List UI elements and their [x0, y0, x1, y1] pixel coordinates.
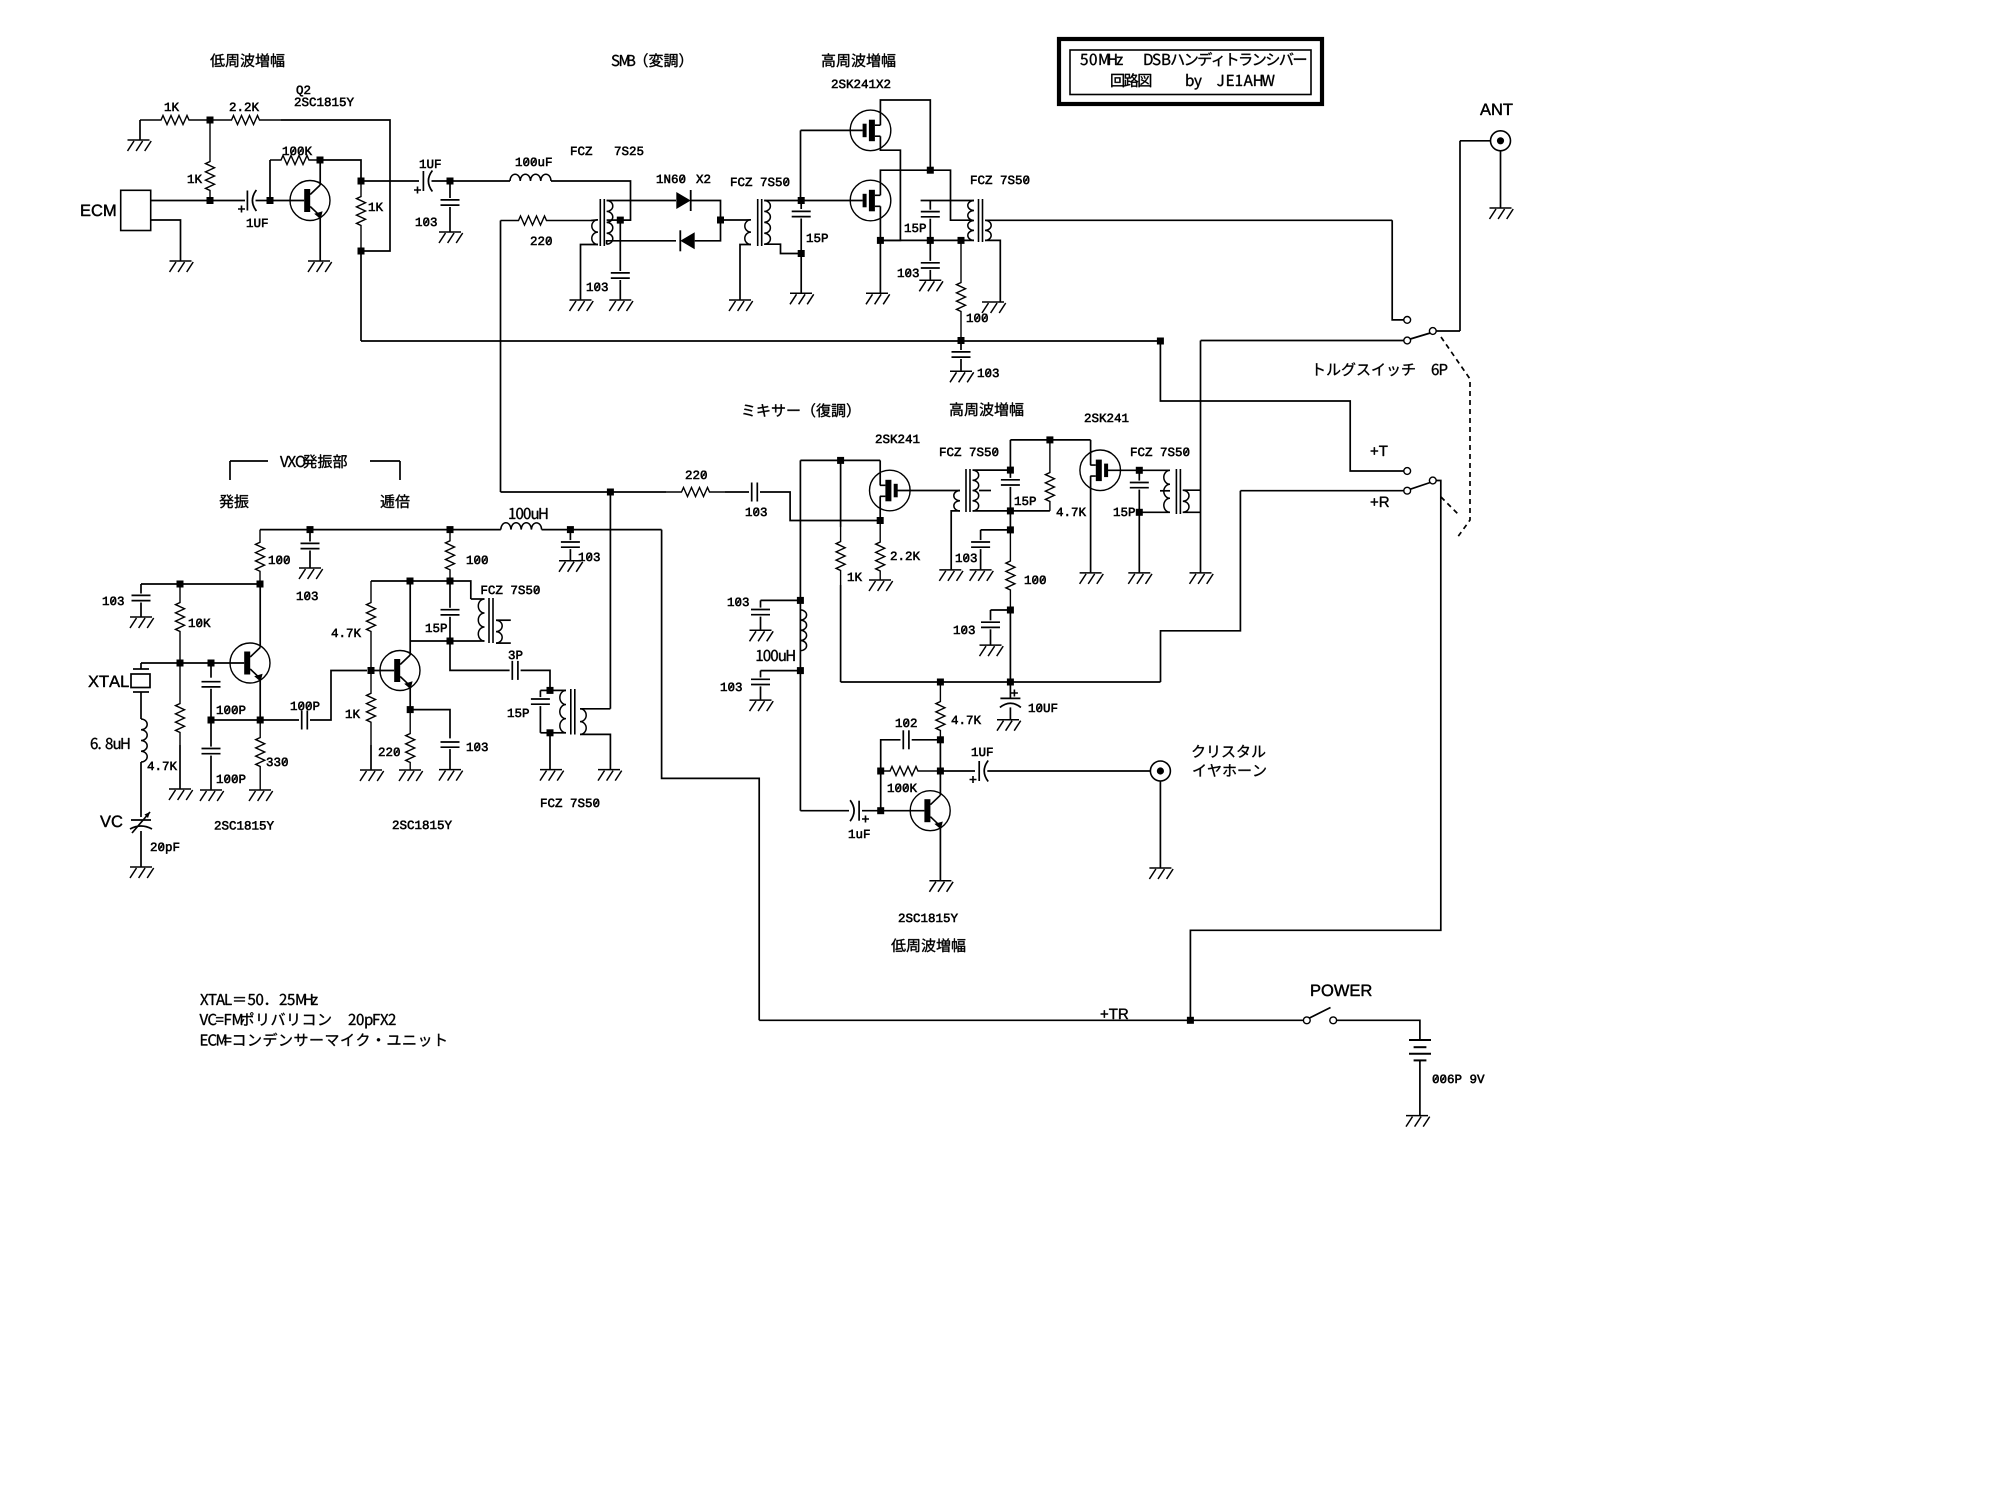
node TX gate: [798, 197, 805, 204]
label C 103: [416, 218, 437, 226]
label +T: [1371, 446, 1388, 456]
capacitor 103 osc: [132, 595, 151, 600]
diode D1 1N60: [676, 192, 690, 209]
transistor Q8 2SC1815Y osc: [230, 643, 270, 683]
wire ECM gnd leg: [151, 220, 181, 261]
wire 103 stub: [569, 530, 571, 541]
capacitor 102: [903, 730, 909, 749]
ECM microphone unit: [81, 204, 115, 216]
wire +T rail: [361, 340, 1160, 342]
wire 10UF stub: [1009, 682, 1011, 698]
label C 103: [898, 269, 919, 277]
title line2b: [1186, 74, 1274, 90]
ground G2: [170, 261, 194, 272]
capacitor 10UF: [1000, 698, 1021, 707]
label 2SK241X2: [832, 80, 890, 88]
label C 15P doubler: [426, 624, 447, 632]
wire 15P stub: [1009, 470, 1011, 478]
label R 100 doubler: [467, 556, 488, 564]
label T4: [940, 448, 998, 456]
node 103b: [1007, 607, 1014, 614]
resistor 100 doubler: [446, 530, 455, 581]
wire lower source: [879, 206, 881, 240]
wire upper gate: [801, 129, 863, 131]
ground G4: [439, 232, 463, 243]
node base/xtal: [177, 660, 184, 667]
wire +R staircase: [1161, 491, 1241, 682]
wire ANT drop: [1459, 141, 1461, 331]
T7 primary winding: [560, 690, 566, 732]
wire SW1b lever: [1410, 483, 1430, 490]
wire to gnd: [449, 749, 451, 770]
label C 10UF: [1029, 704, 1057, 712]
FET Q5 2SK241 mixer: [870, 470, 911, 511]
ground G24c: [750, 700, 774, 711]
node Q6 gate: [1136, 467, 1143, 474]
label R 100 RX: [1025, 576, 1046, 584]
ground G25: [130, 617, 154, 628]
wire 240 rail: [880, 239, 974, 241]
ground G19: [1128, 573, 1152, 584]
wire +TR riser: [662, 530, 760, 1021]
node mixer source: [877, 517, 884, 524]
capacitor 1UF AF out: [979, 761, 988, 782]
node fb row l: [208, 717, 215, 724]
wire +R rail: [841, 681, 1161, 683]
ground G21: [997, 720, 1021, 731]
wire mixer rail left drop: [799, 460, 801, 600]
wire 1K gnd: [370, 745, 372, 770]
ground G36: [559, 561, 583, 572]
node collector riser: [407, 578, 414, 585]
wire RX supply rail: [1010, 439, 1090, 441]
ground G9: [866, 293, 890, 304]
ground G33: [439, 770, 463, 781]
wire T5 riser: [1200, 341, 1202, 573]
label crystal earphone 1: [1192, 745, 1265, 758]
wire 103 stub: [140, 584, 142, 594]
wire osc collector riser: [259, 584, 261, 648]
label toggle switch 6P: [1316, 362, 1447, 376]
label C 103 up: [728, 598, 749, 606]
bracket right v: [399, 461, 401, 480]
resistor 4.7K doubler: [367, 581, 376, 671]
T3 primary winding: [968, 201, 974, 241]
resistor 1K doubler: [367, 671, 376, 746]
ground G22: [1149, 868, 1173, 879]
label C 15P T5: [1114, 508, 1135, 516]
capacitor 103 rail bypass: [952, 352, 971, 357]
title box: [1059, 39, 1322, 104]
wire D1 to sum node: [691, 201, 721, 221]
label C 1UF out: [420, 160, 441, 168]
capacitor 15P T2: [792, 211, 811, 216]
label R 2.2K: [230, 103, 259, 111]
wire T5 tap stub: [1160, 490, 1170, 492]
node rail 103: [958, 337, 965, 344]
wire base to 100K: [269, 160, 271, 201]
node emitter row: [407, 706, 414, 713]
wire jack gnd leg: [1159, 781, 1161, 868]
wire rail 103 stub: [960, 341, 962, 350]
node +TR junction: [1187, 1017, 1194, 1024]
ground G35: [1406, 1116, 1430, 1127]
wire 103 stub: [981, 529, 1011, 531]
wire to +R rail: [1009, 610, 1011, 682]
wire T5 bottom row: [1139, 511, 1170, 513]
node bias junction: [207, 117, 214, 124]
label C 100P a: [217, 706, 245, 714]
capacitor 1UF input: [247, 190, 256, 211]
label AF-amp section 低周波増幅: [210, 53, 284, 67]
wire 15P bottom: [1009, 487, 1011, 511]
node load bottom: [358, 248, 365, 255]
T6 primary winding: [478, 599, 484, 641]
label crystal earphone 2: [1193, 764, 1266, 777]
capacitor 15P T3: [921, 212, 940, 217]
wire upper source: [880, 136, 900, 240]
bracket right h: [370, 460, 400, 462]
wire osc base row: [141, 662, 244, 664]
ground G30: [360, 770, 384, 781]
label 100uH rail: [509, 508, 547, 519]
wire +R line: [1240, 490, 1403, 492]
capacitor 103 VXO rail: [301, 543, 320, 548]
wire 103 stub: [449, 181, 451, 198]
wire to 103: [725, 491, 749, 493]
capacitor 15P doubler: [441, 610, 460, 615]
node T5 bottom: [1136, 509, 1143, 516]
ground G26: [130, 867, 154, 878]
wire 15P bottom: [800, 219, 802, 254]
T4 secondary winding: [973, 470, 979, 511]
node AF base: [877, 807, 884, 814]
node T2 bottom: [798, 250, 805, 257]
wire 220 to T1: [591, 219, 598, 222]
title line1: [1080, 52, 1306, 66]
wire T5 sec top: [1183, 489, 1201, 491]
ground G24: [299, 568, 323, 579]
label C 1UF: [247, 219, 268, 227]
wire osc emitter: [258, 677, 260, 720]
label mixer section: [743, 403, 850, 417]
capacitor 15P T4: [1001, 480, 1020, 485]
wire T6 top stub: [471, 598, 485, 600]
wire lower gate: [801, 200, 862, 202]
wire 102 right: [912, 739, 941, 741]
wire mixer gate to T4: [897, 490, 960, 492]
label R 1K mixer: [848, 573, 862, 581]
wire to gnd: [800, 254, 802, 294]
capacitor 100P a: [202, 682, 221, 687]
capacitor 1UF output: [423, 171, 432, 192]
node mic junction: [207, 197, 214, 204]
wire ECM out: [151, 200, 210, 202]
T1 primary winding: [592, 220, 598, 245]
wire source to gnd: [879, 240, 881, 293]
connector earphone jack: [1150, 761, 1170, 781]
wire D2 to sum node: [695, 220, 721, 241]
node 100P top: [208, 660, 215, 667]
capacitor 103 tap bypass: [611, 273, 630, 278]
label R 330: [267, 758, 288, 766]
label C 103 RX b: [954, 626, 975, 634]
wire T1 tap stub: [607, 219, 621, 221]
wire battery to gnd: [1419, 1060, 1421, 1115]
wire Q6 drain: [1090, 440, 1092, 465]
wire collector to output node: [320, 160, 361, 181]
connector ANT jack: [1491, 131, 1511, 151]
label T2 FCZ 7S50: [731, 178, 789, 186]
wire upper drain to rail: [880, 100, 930, 170]
wire T4 sec bottom row: [973, 510, 1050, 512]
resistor 220 LO injection: [501, 216, 592, 225]
power switch SW2: [1303, 1017, 1310, 1024]
wire 103 stub dn: [761, 670, 801, 672]
label VC: [100, 815, 122, 827]
wire T3 sec gnd leg: [985, 240, 1000, 302]
wire pole to ANT: [1436, 330, 1460, 332]
label C 100P b: [217, 775, 245, 783]
ground G12: [950, 371, 974, 382]
wire pole to supply: [1190, 481, 1440, 1021]
label C 103: [587, 283, 608, 291]
resistor 2.2K: [210, 116, 281, 125]
ground G23: [929, 881, 953, 892]
node 100 top: [958, 237, 965, 244]
wire collector link: [939, 740, 941, 771]
node 100K left: [877, 768, 884, 775]
ground G28: [200, 790, 224, 801]
wire primary bottom row: [410, 640, 481, 642]
wire to battery: [1337, 1020, 1420, 1040]
capacitor 103 audio bypass: [441, 200, 460, 205]
node 15P/100: [447, 578, 454, 585]
wire T2 sec bottom: [764, 244, 801, 253]
ground G32: [540, 770, 564, 781]
linkage dashed 2: [1441, 497, 1460, 516]
ground G18: [1080, 573, 1104, 584]
ground G34: [399, 770, 423, 781]
wire collector riser: [319, 160, 321, 185]
wire doubler emitter: [408, 684, 410, 709]
ground G24b: [750, 630, 774, 641]
label C 1UF AF: [972, 748, 993, 756]
label C 100P series: [291, 702, 319, 710]
node 10K top: [177, 581, 184, 588]
label RX 2SK241: [1085, 414, 1129, 422]
wire ANT: [1460, 140, 1491, 142]
T4 primary winding: [954, 491, 960, 511]
ground G14: [869, 580, 893, 591]
note2: [200, 1012, 396, 1028]
label R 4.7K doubler: [332, 629, 361, 637]
capacitor 103 rail decouple: [561, 542, 580, 547]
node rail 100b: [447, 526, 454, 533]
capacitor 103 TX bypass: [921, 263, 940, 268]
T5 primary winding: [1164, 470, 1170, 512]
wire to choke: [450, 180, 510, 182]
capacitor 15P T7: [531, 699, 550, 704]
label R 10K: [189, 619, 211, 627]
note1: [200, 994, 317, 1005]
wire LO to T7: [609, 492, 611, 709]
label R 100K: [283, 147, 312, 155]
wire T2 primary gnd leg: [740, 245, 751, 301]
label osc: [219, 494, 248, 508]
label R 1K doubler: [346, 710, 360, 718]
label RX RF amp section: [950, 402, 1023, 416]
capacitor 103 RX b: [981, 622, 1000, 627]
inductor 6.8uH: [141, 719, 147, 762]
ground G10: [919, 280, 943, 291]
wire doubler collector riser: [409, 581, 411, 655]
wire 100P bottom: [210, 689, 212, 720]
wire T6 sec bottom stub: [496, 642, 511, 644]
wire +T path: [1160, 341, 1403, 471]
wire +TR rail: [759, 1019, 1303, 1021]
wire 2.2K to collector feed: [281, 120, 390, 251]
label T5: [1131, 448, 1189, 456]
capacitor 100P series: [302, 711, 308, 730]
label POWER: [1311, 984, 1371, 996]
node AF output: [358, 178, 365, 185]
label C 1uF AF in: [849, 830, 870, 838]
label RF amp section: [822, 53, 895, 67]
note3: [201, 1033, 446, 1047]
label ANT: [1480, 104, 1513, 115]
wire to earphone: [987, 770, 1150, 772]
FET Q4 2SK241 lower: [850, 180, 891, 221]
inductor 100uH: [800, 610, 806, 651]
wire feedback row: [211, 719, 299, 721]
node T4 bottom: [1007, 507, 1014, 514]
wire SW1a lever: [1410, 333, 1430, 339]
node SMB audio in: [447, 178, 454, 185]
wire to gnd: [309, 551, 311, 569]
label C 103 series: [746, 508, 767, 516]
node T7 bottom: [547, 729, 554, 736]
FET Q3 2SK241 upper: [850, 110, 891, 151]
node source rail: [877, 237, 884, 244]
wire 3P to T7: [521, 670, 550, 690]
inductor 100uF choke: [510, 174, 551, 181]
resistor 2.2K mixer: [876, 521, 885, 581]
transistor Q9 2SC1815Y doubler: [380, 651, 420, 691]
wire AF out: [940, 770, 975, 772]
wire 103 stub: [309, 530, 311, 542]
wire Q6 source: [1090, 476, 1092, 573]
wire 102 left: [881, 740, 901, 771]
label R 100: [967, 314, 988, 322]
node 10UF: [1007, 679, 1014, 686]
resistor 10K: [176, 584, 185, 663]
label R 100K AF: [888, 784, 917, 792]
wire into T2 primary: [746, 219, 751, 221]
label T7: [541, 799, 599, 807]
wire mixer drain: [879, 460, 881, 485]
wire 15P stub: [800, 201, 802, 210]
capacitor 3P: [512, 661, 518, 680]
node 240 rail a: [927, 237, 934, 244]
T2 secondary winding: [764, 201, 770, 245]
wire T5 sec bottom: [1183, 511, 1201, 513]
label R 1K load: [369, 203, 383, 211]
ground G17: [980, 645, 1004, 656]
label doubler: [381, 494, 410, 508]
label T6: [482, 586, 540, 594]
resistor 1K to mic: [206, 120, 215, 201]
wire to source loop: [760, 492, 880, 521]
resistor 4.7K AF: [936, 682, 945, 740]
node T1 center tap: [617, 217, 624, 224]
label R 4.7K osc: [148, 762, 177, 770]
ground G5: [570, 300, 594, 311]
wire LO bottom: [501, 491, 611, 493]
wire base lead: [270, 200, 304, 202]
label C 103 dn: [721, 683, 742, 691]
wire LO to 220: [610, 491, 666, 493]
label R 220 doubler: [379, 748, 400, 756]
wire gate tie vertical: [800, 130, 802, 200]
wire T4 tap stub: [979, 490, 991, 492]
ground G1: [128, 140, 152, 151]
wire base lead: [881, 810, 925, 812]
wire T1 top to D1: [607, 200, 676, 202]
FET Q6 2SK241 RX: [1080, 450, 1121, 491]
wire down: [1009, 511, 1011, 530]
label SMB (modulator) section: [612, 53, 683, 67]
wire ANT gnd leg: [1500, 151, 1502, 208]
inductor 100uH rail choke: [501, 523, 542, 530]
wire to base: [880, 771, 882, 811]
label C 103 rail: [978, 369, 999, 377]
label T1 FCZ 7S25: [615, 147, 643, 155]
node mixer bias: [837, 457, 844, 464]
wire VXO rail: [260, 529, 501, 531]
wire 103 stub up: [761, 599, 801, 601]
label Q2 2SC1815Y: [295, 98, 354, 106]
wire to gnd: [619, 280, 621, 300]
wire 1K bottom to +R rail: [840, 585, 842, 682]
wire RX contact: [1392, 220, 1404, 320]
label 100uH: [757, 650, 795, 661]
wire bias left drop: [139, 120, 141, 140]
wire T4 primary gnd leg: [951, 511, 960, 570]
wire T1 bottom to D2: [607, 241, 676, 244]
wire gate to T5: [1139, 469, 1170, 471]
ground G27: [169, 789, 193, 800]
ground G16: [970, 570, 994, 581]
resistor 4.7K osc: [176, 663, 185, 745]
wire T1 primary gnd leg: [581, 245, 599, 301]
label C 15P T4: [1015, 497, 1036, 505]
wire T7 sec top to LO: [580, 708, 610, 710]
wire 100Pb stub: [210, 720, 212, 747]
wire mixer source stub: [879, 496, 881, 520]
capacitor 15P T5: [1130, 483, 1149, 488]
ground G31: [598, 770, 622, 781]
label AF amp RX section: [891, 938, 965, 952]
wire rail corner down: [1009, 440, 1011, 470]
wire 15P bottom: [929, 219, 931, 241]
wire choke to T1 center tap: [551, 181, 631, 220]
resistor 220 doubler: [406, 710, 415, 770]
wire 15P stub: [1138, 470, 1140, 480]
label R 100 osc: [269, 556, 290, 564]
T1 secondary winding: [607, 201, 613, 245]
node LO tee: [607, 489, 614, 496]
